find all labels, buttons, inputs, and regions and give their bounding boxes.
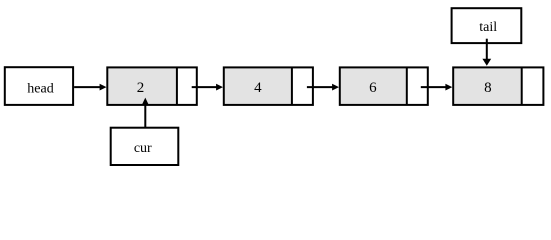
- wire tail to node 8: [482, 39, 491, 66]
- wire node 4 to node 6: [307, 84, 339, 91]
- wire node 6 to node 8: [421, 84, 453, 91]
- node 4: [224, 67, 313, 105]
- svg-text:tail: tail: [479, 20, 497, 35]
- tail box: [452, 8, 522, 43]
- node 6: [340, 67, 428, 105]
- cur box: [111, 128, 179, 165]
- svg-text:8: 8: [484, 80, 492, 96]
- svg-text:6: 6: [369, 80, 377, 96]
- node 8: [453, 67, 543, 105]
- wire cur to node 2: [142, 98, 149, 128]
- wire node 2 to node 4: [192, 84, 223, 91]
- node 2: [107, 67, 197, 105]
- wire head to node 2: [74, 84, 106, 91]
- svg-text:2: 2: [137, 80, 145, 96]
- svg-text:head: head: [27, 82, 53, 97]
- svg-text:4: 4: [254, 80, 262, 96]
- svg-text:cur: cur: [134, 141, 152, 156]
- head box: [5, 67, 73, 105]
